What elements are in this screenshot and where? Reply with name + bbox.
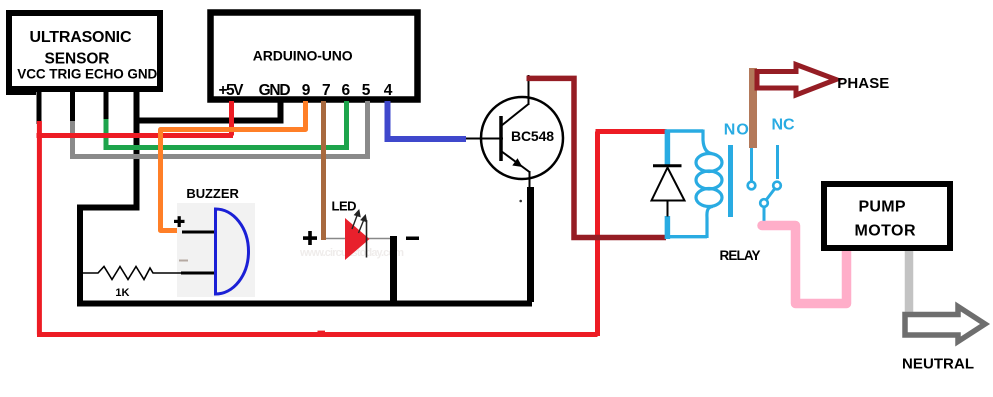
wire gray pump motor to neutral bbox=[905, 251, 914, 318]
buzzer body bbox=[216, 209, 249, 294]
svg-text:NEUTRAL: NEUTRAL bbox=[902, 355, 974, 372]
transistor Q1 BC548 bbox=[466, 75, 563, 188]
LED cathode bar bbox=[366, 220, 368, 258]
LED light arrow 1 bbox=[352, 211, 360, 230]
svg-text:SENSOR: SENSOR bbox=[45, 51, 110, 68]
LED lead line bbox=[326, 238, 394, 240]
wire arduino GND to sensor GND bbox=[137, 101, 281, 121]
phase arrow bbox=[757, 65, 836, 96]
pump motor box bbox=[824, 184, 950, 248]
svg-text:ARDUINO-UNO: ARDUINO-UNO bbox=[253, 47, 353, 63]
svg-text:PHASE: PHASE bbox=[837, 75, 889, 92]
svg-text:RELAY: RELAY bbox=[720, 248, 761, 263]
svg-text:ULTRASONIC: ULTRASONIC bbox=[30, 29, 132, 46]
buzzer minus mark bbox=[179, 260, 188, 262]
svg-text:MOTOR: MOTOR bbox=[855, 222, 916, 239]
wire brown arduino pin7 to LED bbox=[321, 101, 326, 240]
stray dot bbox=[519, 200, 522, 203]
buzzer minus lead bbox=[181, 272, 214, 275]
wire gray TRIG to arduino pin5 bbox=[73, 101, 368, 157]
svg-text:9: 9 bbox=[302, 82, 311, 99]
wire red horizontal +5V to VCC bbox=[37, 133, 234, 138]
svg-text:6: 6 bbox=[341, 82, 350, 99]
wire orange arduino pin9 to buzzer plus bbox=[161, 101, 306, 231]
svg-text:BC548: BC548 bbox=[511, 128, 554, 144]
wire brown relay common to phase bbox=[749, 68, 757, 148]
resistor R 1K bbox=[83, 267, 183, 300]
relay top edge bbox=[665, 129, 703, 132]
relay NO contact bbox=[750, 147, 753, 181]
svg-text:4: 4 bbox=[384, 82, 393, 99]
relay coil bbox=[696, 130, 722, 239]
svg-text:5: 5 bbox=[362, 82, 371, 99]
svg-text:7: 7 bbox=[322, 82, 331, 99]
buzzer plus label bbox=[174, 216, 185, 227]
relay K1 bbox=[652, 117, 795, 264]
relay NC contact bbox=[776, 145, 779, 179]
wire ground net sensor GND to bottom rail bbox=[80, 89, 532, 304]
wire green ECHO to arduino pin6 bbox=[106, 101, 347, 148]
wire transistor emitter thick bbox=[527, 187, 534, 302]
ultrasonic sensor box bbox=[6, 13, 160, 95]
svg-text:GND: GND bbox=[259, 82, 291, 99]
relay left top stub bbox=[665, 130, 671, 165]
diode D1 bbox=[652, 166, 685, 217]
wire LED cathode to ground rail bbox=[390, 236, 397, 303]
sensor VCC pin stub bbox=[37, 89, 42, 124]
svg-text:NC: NC bbox=[772, 117, 795, 134]
wire red +5V pin down bbox=[229, 101, 234, 136]
svg-text:VCC TRIG ECHO GND: VCC TRIG ECHO GND bbox=[17, 66, 157, 81]
wire red bottom rail bbox=[37, 332, 598, 337]
LED plus label bbox=[303, 231, 317, 245]
LED body bbox=[345, 218, 370, 260]
wire blue arduino pin4 to transistor base bbox=[388, 101, 467, 139]
wire pink NC to pump motor bbox=[762, 226, 847, 304]
buzzer plus lead bbox=[182, 231, 214, 234]
svg-text:BUZZER: BUZZER bbox=[186, 186, 239, 201]
arduino uno box bbox=[211, 13, 418, 100]
wire red to relay top bbox=[596, 129, 667, 134]
sensor ECHO pin stub bbox=[104, 89, 109, 122]
relay common armature bbox=[760, 199, 768, 207]
wire red up to relay bbox=[595, 132, 600, 337]
wire dark red collector to relay bbox=[527, 78, 667, 237]
sensor TRIG pin stub bbox=[70, 89, 75, 124]
svg-text:+5V: +5V bbox=[219, 82, 245, 99]
relay left bottom stub bbox=[665, 216, 671, 239]
relay bottom edge bbox=[665, 235, 707, 238]
svg-text:LED: LED bbox=[332, 199, 357, 214]
LED minus label bbox=[406, 237, 419, 241]
wire red VCC down left side bbox=[37, 121, 42, 335]
buzzer background panel bbox=[177, 203, 255, 297]
svg-text:PUMP: PUMP bbox=[859, 199, 906, 216]
LED light arrow 2 bbox=[359, 216, 367, 234]
svg-text:1K: 1K bbox=[115, 287, 129, 299]
svg-text:NO: NO bbox=[724, 122, 749, 139]
neutral arrow bbox=[905, 307, 985, 342]
relay core bar bbox=[728, 145, 733, 217]
